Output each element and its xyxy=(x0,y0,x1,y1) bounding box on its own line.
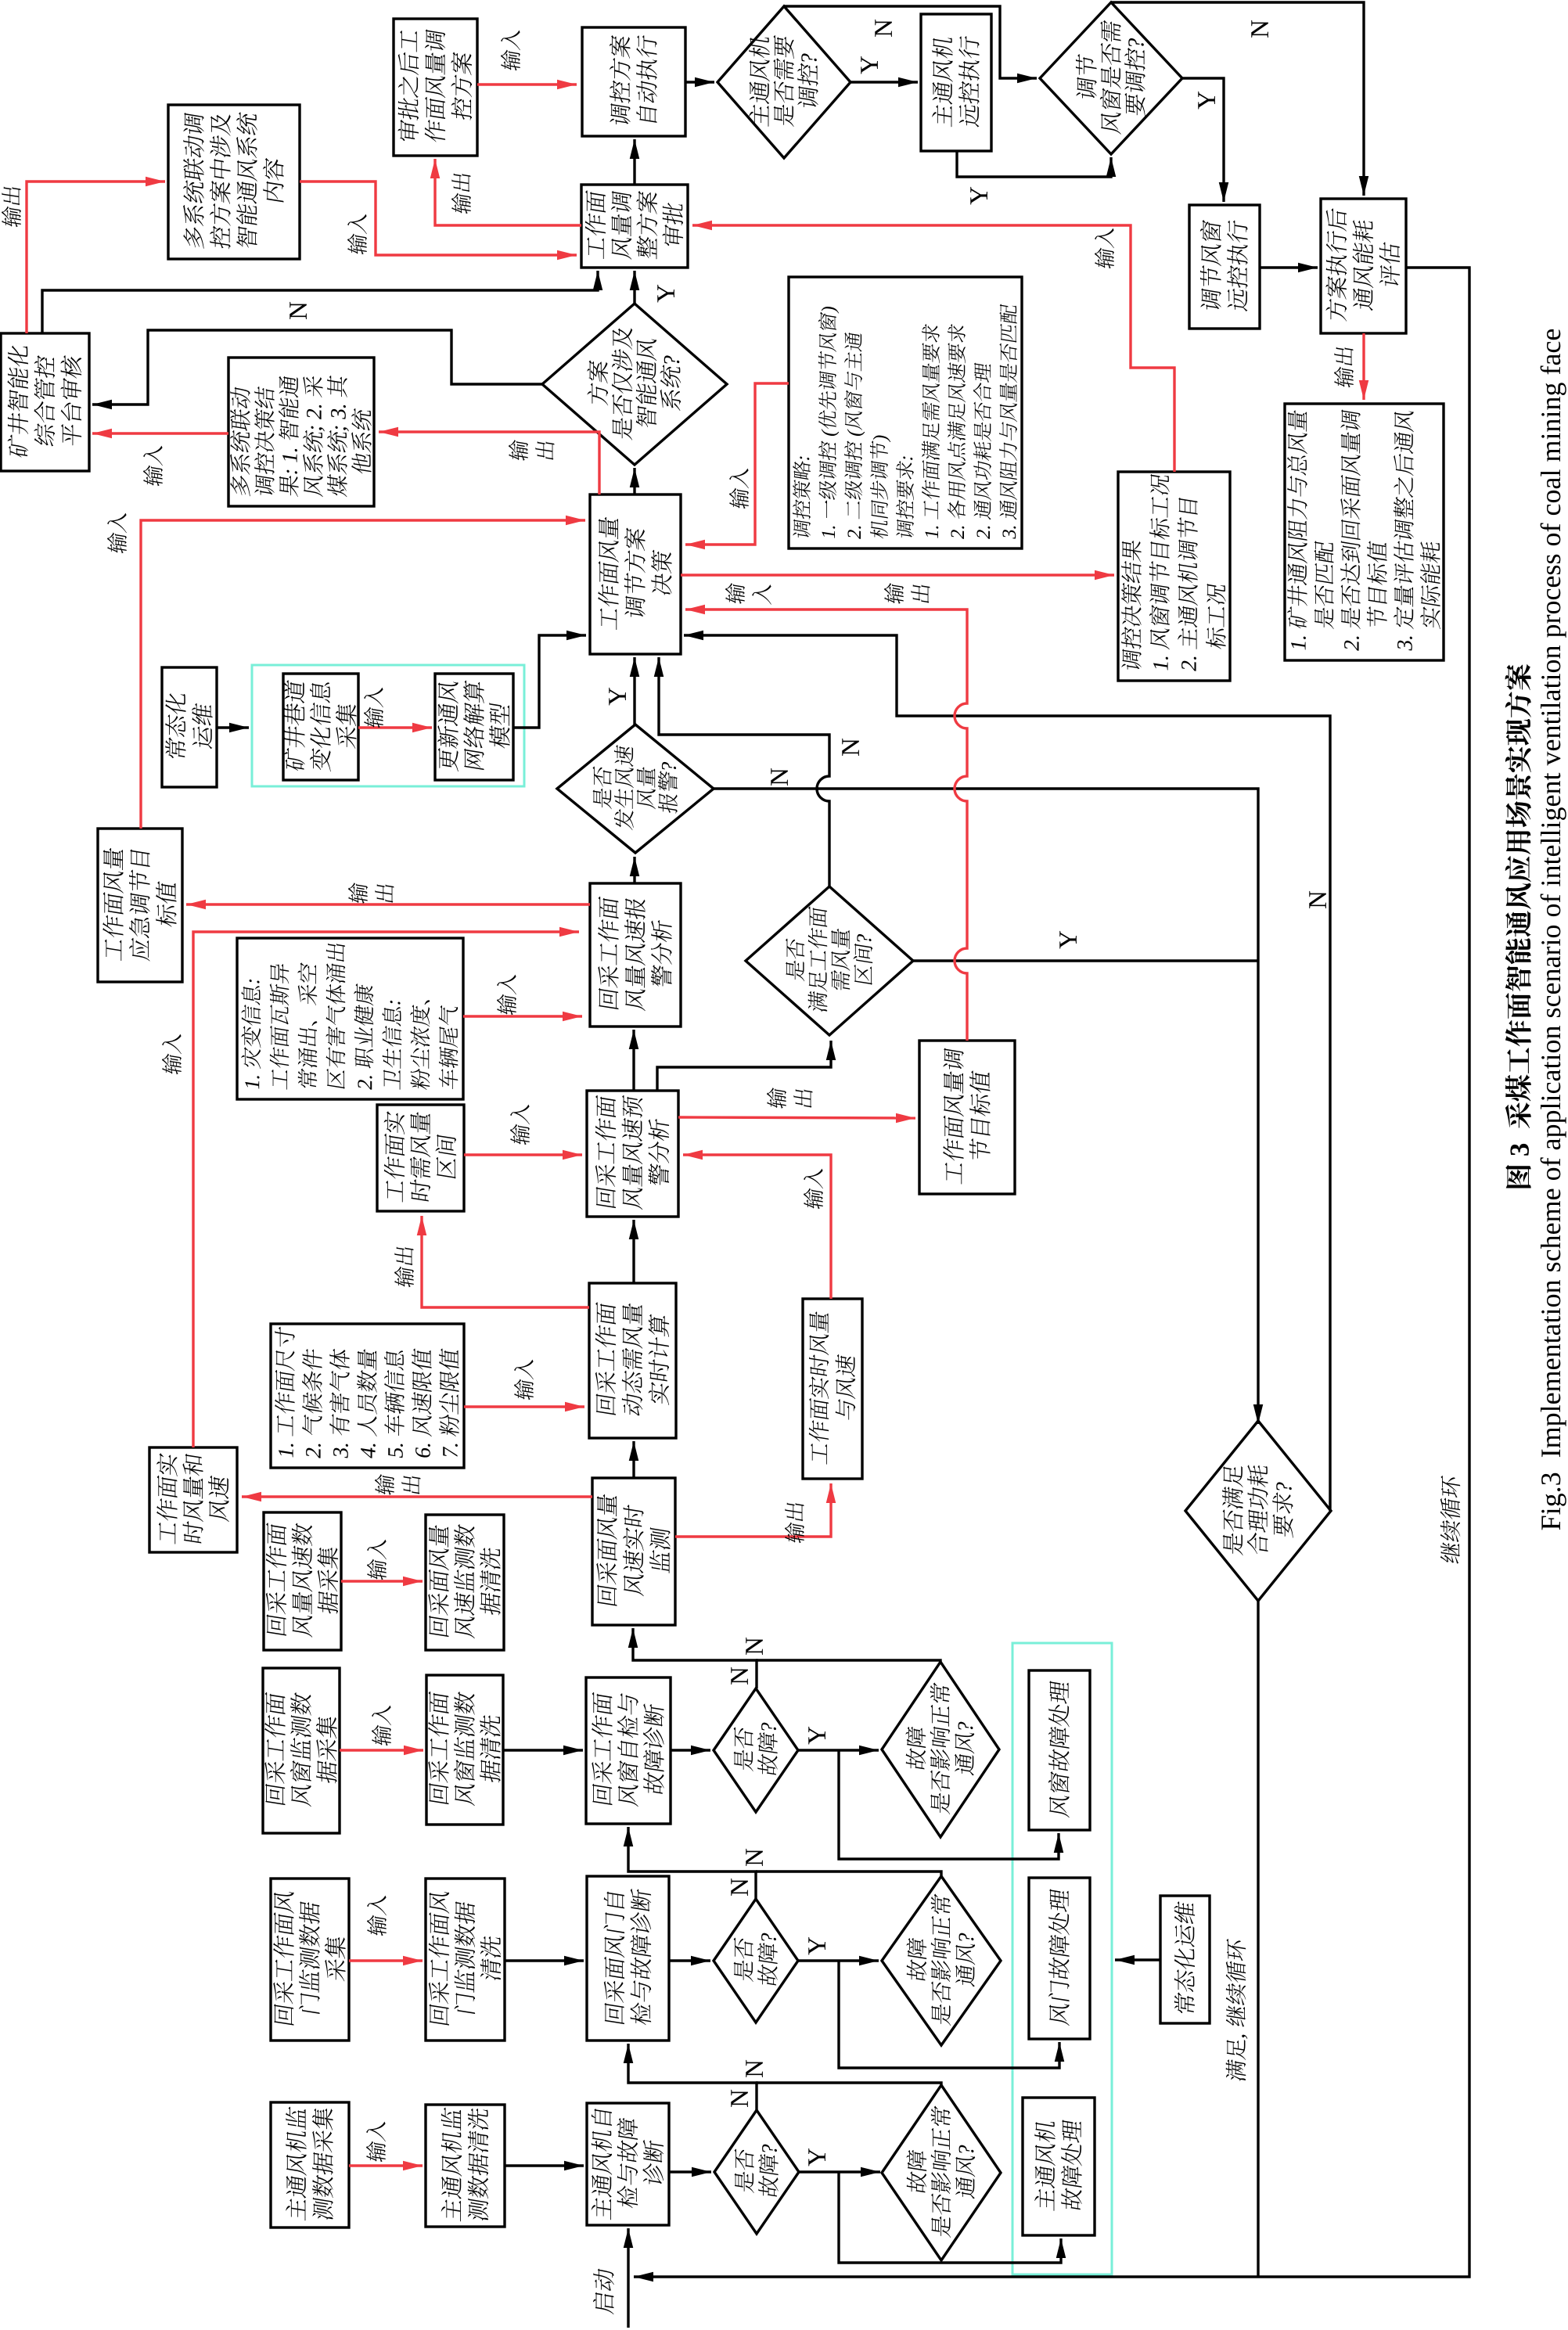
wire window fault Y -> affect diamond xyxy=(798,1749,879,1751)
label 输入 (参数->计算) xyxy=(514,1357,534,1401)
box 工作面实时风量和风速 xyxy=(149,1447,237,1552)
label N (报警) xyxy=(771,768,788,786)
wire 常态化运维(lower) -> fault handling group xyxy=(1115,1958,1160,1961)
red wire 报警分析 -> 应急调节目标值 (输出) xyxy=(186,903,590,905)
red wire 监测 -> 实时风量和风速 (输出) xyxy=(242,1495,592,1498)
box 回采工作面风量风速数据采集 xyxy=(264,1512,341,1650)
box 矿井智能化综合管控平台审核 xyxy=(1,333,89,471)
red wire 风窗采集 -> 清洗 (输入) xyxy=(340,1749,423,1751)
box 回采工作面风窗监测数据采集 xyxy=(263,1668,340,1833)
wire 区间 diamond Y right join xyxy=(913,959,1258,962)
label N (window lane corner) xyxy=(731,1667,748,1685)
diamond 是否发生风速风量报警? xyxy=(557,725,714,853)
red wire 多系统结果 -> 矿井智能化平台 (输入) xyxy=(92,432,228,434)
box 主通风机远控执行 xyxy=(921,14,991,151)
box 工作面风量应急调节目标值 xyxy=(98,829,182,982)
label 输入 (应急->决策) xyxy=(107,510,127,554)
wire 报警 diamond Y -> 决策 xyxy=(633,657,635,725)
diamond 是否故障? (风窗) xyxy=(714,1688,798,1812)
wire fan diag->fault diamond xyxy=(669,2170,711,2173)
wire fan lane clean->diag xyxy=(505,2164,584,2166)
label 输入 (风窗采集->清洗) xyxy=(372,1703,391,1746)
box 灾变信息/职业健康 note xyxy=(237,938,463,1099)
box 调节风窗远控执行 xyxy=(1189,205,1260,329)
wire fan affect diamond N stub to shared line xyxy=(756,2083,941,2085)
red wire 矿井智能化平台 -> 多系统联动调控方案内容 (输出) xyxy=(27,182,165,333)
label 输入 (多系统结果->平台) xyxy=(143,443,163,487)
label N (调节风窗) xyxy=(1251,20,1268,38)
diamond 是否满足工作面需风量区间? xyxy=(746,886,913,1035)
label 输出 (报警分析->应急) xyxy=(348,882,368,904)
label 输出 (计算->区间) xyxy=(394,1246,414,1289)
label N (方案) xyxy=(290,302,307,319)
box 回采工作面风窗自检与故障诊断 xyxy=(586,1677,671,1824)
wire 方案 diamond Y -> 审批 xyxy=(633,271,635,304)
box 主通风机监测数据清洗 xyxy=(426,2105,505,2227)
box 风门故障处理 xyxy=(1029,1878,1090,2039)
box 工作面风量调整方案审批 xyxy=(581,185,688,268)
label 输入 (灾变->报警分析) xyxy=(497,972,516,1016)
label 输出 (审批->审批之后) xyxy=(451,172,471,215)
label 输入 (巷道采集->更新模型) xyxy=(364,685,383,728)
box 审批之后工作面风量调控方案 xyxy=(394,19,477,156)
red wire 审批 -> 审批之后方案 (输出) xyxy=(435,159,581,225)
box 多系统联动调控决策结果 xyxy=(228,358,374,506)
box 回采工作面风门监测数据清洗 xyxy=(426,1879,505,2041)
box 主通风机自检与故障诊断 xyxy=(587,2103,669,2225)
box 工作面参数 note (尺寸/气候/...) xyxy=(271,1324,464,1468)
wire 矿井智能化平台 -> 审批 xyxy=(42,271,598,333)
caption 图3 Chinese xyxy=(1505,664,1531,1188)
wire door N up-left into 风窗自检 xyxy=(628,1827,756,1899)
red wire 灾变信息 -> 报警分析 (输入) xyxy=(463,1015,582,1017)
box 回采工作面风量风速报警分析 xyxy=(590,883,681,1027)
box 矿井巷道变化信息采集 xyxy=(283,674,358,780)
wire 计算->预警分析 xyxy=(632,1220,635,1283)
label 输入 (调控策略->决策) xyxy=(729,466,749,509)
box 常态化运维 (lower) xyxy=(1160,1896,1210,2023)
label Y (door) xyxy=(808,1937,825,1955)
red wire 实时风量与风速 -> 预警分析 (输入) xyxy=(683,1155,831,1299)
red wire 应急调节目标值 -> 决策 (输入) xyxy=(141,520,585,829)
label 启动 xyxy=(593,2267,614,2314)
label 输入 (调节目标值->决策) xyxy=(725,582,745,605)
wire door lane clean->diag xyxy=(505,1959,584,1961)
red wire 需风量区间 -> 预警分析 (输入) xyxy=(464,1153,582,1156)
label Y (window) xyxy=(808,1727,825,1745)
label 继续循环 (right side) xyxy=(1440,1476,1461,1565)
red wire 计算 -> 需风量区间 (输出) xyxy=(422,1216,589,1307)
label 输入 (区间->预警) xyxy=(510,1102,530,1145)
wire door affect diamond N stub to shared line xyxy=(756,1872,941,1876)
wire bottom return line 评估->启动 continue loop xyxy=(634,268,1469,2277)
box 工作面风量调节方案决策 xyxy=(590,494,681,654)
wire 监测->动态需风量计算 xyxy=(632,1441,635,1478)
label 满足, 继续循环 xyxy=(1226,1939,1248,2083)
wire window lane clean->diag xyxy=(503,1749,583,1751)
label 输入 (风门采集->清洗) xyxy=(367,1893,387,1936)
red wire 评估 -> 阻力结果 (输出) xyxy=(1362,333,1365,400)
wire window diag->fault diamond xyxy=(671,1749,710,1751)
label Y (方案) xyxy=(657,285,674,303)
diamond 方案是否仅涉及智能通风系统? xyxy=(542,304,727,465)
red wire 监测 -> 实时风量与风速 (输出) xyxy=(675,1483,831,1537)
label 输出 (决策->多系统结果) xyxy=(509,439,528,462)
box 更新通风网络解算模型 xyxy=(435,674,513,780)
box 回采工作面风窗监测数据清洗 xyxy=(426,1675,503,1825)
red wire 决策 -> 调控决策结果 (输出) xyxy=(681,574,1114,576)
label 输入 (主通风机采集->清洗) xyxy=(366,2119,386,2163)
label N (主通风机调控) xyxy=(875,20,892,37)
label 输入 (多系统内容->审批) xyxy=(347,211,367,255)
label 输入 (实时风量和风速->报警分析) xyxy=(162,1031,182,1075)
red wire 调控策略 -> 决策 (输入) xyxy=(685,383,789,545)
label 输出 (矿井平台) xyxy=(2,185,21,228)
label Y (报警) xyxy=(609,688,626,706)
box 风窗故障处理 xyxy=(1029,1670,1090,1830)
box 多系统联动调控方案中涉及智能通风系统内容 xyxy=(168,105,300,259)
box 回采面风量风速实时监测 xyxy=(592,1478,675,1625)
red wire 风量风速采集 -> 清洗 (输入) xyxy=(341,1580,423,1582)
wire 报警分析->报警 diamond xyxy=(633,857,635,883)
red wire 审批之后方案 -> 自动执行 (输入) xyxy=(477,83,577,85)
red wire 预警分析 -> 调节目标值 (输出) xyxy=(678,1117,915,1118)
wire 预警分析->报警分析 xyxy=(632,1030,635,1091)
label 输入 (审批之后->执行) xyxy=(501,27,520,71)
wire fan Y branch down to 主通风机故障处理 xyxy=(839,2172,1061,2263)
label 输入 (决策结果->审批) xyxy=(1095,225,1114,269)
wire 报警 diamond N right to 功耗 diamond top xyxy=(714,789,1258,1424)
wire 主通风机调控 Y -> 远控执行 xyxy=(851,81,918,83)
cyan group frame around fault-handling boxes xyxy=(1012,1643,1112,2274)
label N (door affect) xyxy=(746,1849,763,1866)
label 输入 (实时风量与风速->预警) xyxy=(804,1166,823,1210)
wire 区间 diamond N up to 决策 with hop xyxy=(659,657,829,886)
diamond 故障是否影响正常通风? (风门) xyxy=(882,1876,1001,2045)
diamond 调节风窗是否需要调控? xyxy=(1040,2,1182,154)
diamond 故障是否影响正常通风? (风窗) xyxy=(882,1662,999,1837)
label 输入 (风量风速采集->清洗) xyxy=(367,1537,387,1580)
label Y (below 远控执行) xyxy=(970,187,987,205)
label Y (调节风窗) xyxy=(1198,92,1215,110)
wire fan fault Y -> affect diamond xyxy=(799,2170,880,2173)
box 工作面风量调节目标值 xyxy=(919,1041,1015,1194)
label N (fan affect) xyxy=(746,2060,763,2077)
label 输出 (预警->调节目标值) xyxy=(767,1087,786,1109)
wire door Y branch down to 风门故障处理 xyxy=(839,1961,1059,2068)
label Y (主通风机调控) xyxy=(861,56,878,74)
diamond 故障是否影响正常通风? (主通风机) xyxy=(882,2085,1001,2260)
box 回采工作面风量风速预警分析 xyxy=(587,1091,678,1217)
red wire 调节目标值 -> 决策 (输入) with hops xyxy=(685,609,967,1041)
box 调控策略 strategy note xyxy=(789,277,1022,548)
wire 自动执行 -> 主通风机是否需要调控 xyxy=(685,81,714,83)
box 回采工作面动态需风量实时计算 xyxy=(589,1283,676,1438)
box 工作面实时风量与风速 xyxy=(803,1299,862,1479)
wire window N up-left into 实时监测 xyxy=(633,1628,757,1688)
red wire 主通风机采集 -> 清洗 (输入) xyxy=(349,2164,423,2166)
red wire 调控决策结果 -> 审批 (输入) xyxy=(692,225,1174,472)
wire 审批 -> 自动执行 xyxy=(633,139,635,185)
wire 功耗 diamond bottom down to return line xyxy=(1257,1601,1259,2277)
label Y (区间) xyxy=(1059,931,1077,949)
label 输出 (决策->调控决策结果) xyxy=(884,582,904,605)
box 主通风机故障处理 xyxy=(1023,2098,1095,2235)
wire 调节风窗 Y -> 调节风窗远控执行 xyxy=(1182,78,1224,202)
box 常态化运维 (upper) xyxy=(162,667,217,787)
wire door fault Y -> affect diamond xyxy=(798,1959,879,1961)
wire door diag->fault diamond xyxy=(669,1959,710,1961)
wire 常态化运维(upper) -> 矿井巷道采集 xyxy=(217,726,249,728)
red wire 实时风量和风速 -> 报警分析 (输入) xyxy=(193,932,579,1447)
label N (window affect) xyxy=(746,1638,763,1655)
box 主通风机监测数据采集 xyxy=(271,2102,349,2228)
wire 方案 diamond N -> 矿井智能化平台 xyxy=(92,330,542,405)
diamond 主通风机是否需要调控? xyxy=(717,6,851,158)
diamond 是否故障? (主通风机) xyxy=(714,2110,799,2234)
wire 更新模型 -> 决策 xyxy=(513,635,586,728)
wire 主通风机调控 N -> 调节风窗 diamond xyxy=(784,6,1037,78)
diamond 是否故障? (风门) xyxy=(714,1899,798,2023)
red wire 矿井巷道采集 -> 更新模型 (输入) xyxy=(358,726,432,728)
wire 启动 start arrow into 主通风机自检 xyxy=(627,2228,629,2328)
box 回采面风量风速监测数据清洗 xyxy=(426,1515,504,1650)
cyan group frame around tunnel-info collection and model update xyxy=(252,665,524,786)
label 输出 (评估->阻力) xyxy=(1334,346,1354,389)
red wire 风门采集 -> 清洗 (输入) xyxy=(349,1959,423,1961)
label N (door lane corner) xyxy=(731,1879,748,1896)
diamond 是否满足合理功耗要求? xyxy=(1185,1421,1331,1601)
red wire 工作面参数 -> 计算 (输入) xyxy=(464,1405,584,1408)
box 回采面风门自检与故障诊断 xyxy=(587,1876,669,2041)
box 调控决策结果 xyxy=(1118,472,1230,681)
wire 预警分析 stub to 区间 diamond xyxy=(657,1041,831,1091)
wire window Y branch down to 风窗故障处理 xyxy=(839,1750,1059,1859)
wire 功耗 diamond N return to 决策 xyxy=(684,635,1330,1511)
wire 决策 -> 方案 diamond xyxy=(633,468,635,494)
label N (功耗) xyxy=(1309,891,1326,908)
caption Fig.3 English xyxy=(1541,329,1566,1530)
label Y (fan) xyxy=(808,2148,825,2166)
box 矿井通风阻力评估结果 note xyxy=(1285,404,1444,660)
red wire 多系统内容 -> 审批 (输入) xyxy=(300,182,577,255)
box 回采工作面风门监测数据采集 xyxy=(271,1879,349,2041)
wire 主通风机远控执行 -> 调节风窗 diamond bottom xyxy=(957,151,1111,177)
box 调控方案自动执行 xyxy=(582,27,685,136)
wire 调节风窗 N -> 评估 xyxy=(1111,2,1364,196)
label N (区间) xyxy=(842,739,859,756)
wire window affect diamond N stub to shared line xyxy=(756,1660,940,1662)
red wire 决策 -> 多系统联动调控决策结果 (输出) xyxy=(379,432,599,494)
label 输出 (监测->实时风量和风速) xyxy=(375,1473,394,1496)
wire 调节风窗远控执行 -> 评估 xyxy=(1260,266,1318,268)
wire fan N up-left into 风门自检 xyxy=(628,2044,757,2110)
box 方案执行后通风能耗评估 xyxy=(1321,199,1406,333)
label 输出 (监测->实时风量与风速) xyxy=(785,1501,804,1544)
box 工作面实时需风量区间 xyxy=(377,1105,464,1211)
label N (fan lane corner) xyxy=(731,2090,748,2107)
